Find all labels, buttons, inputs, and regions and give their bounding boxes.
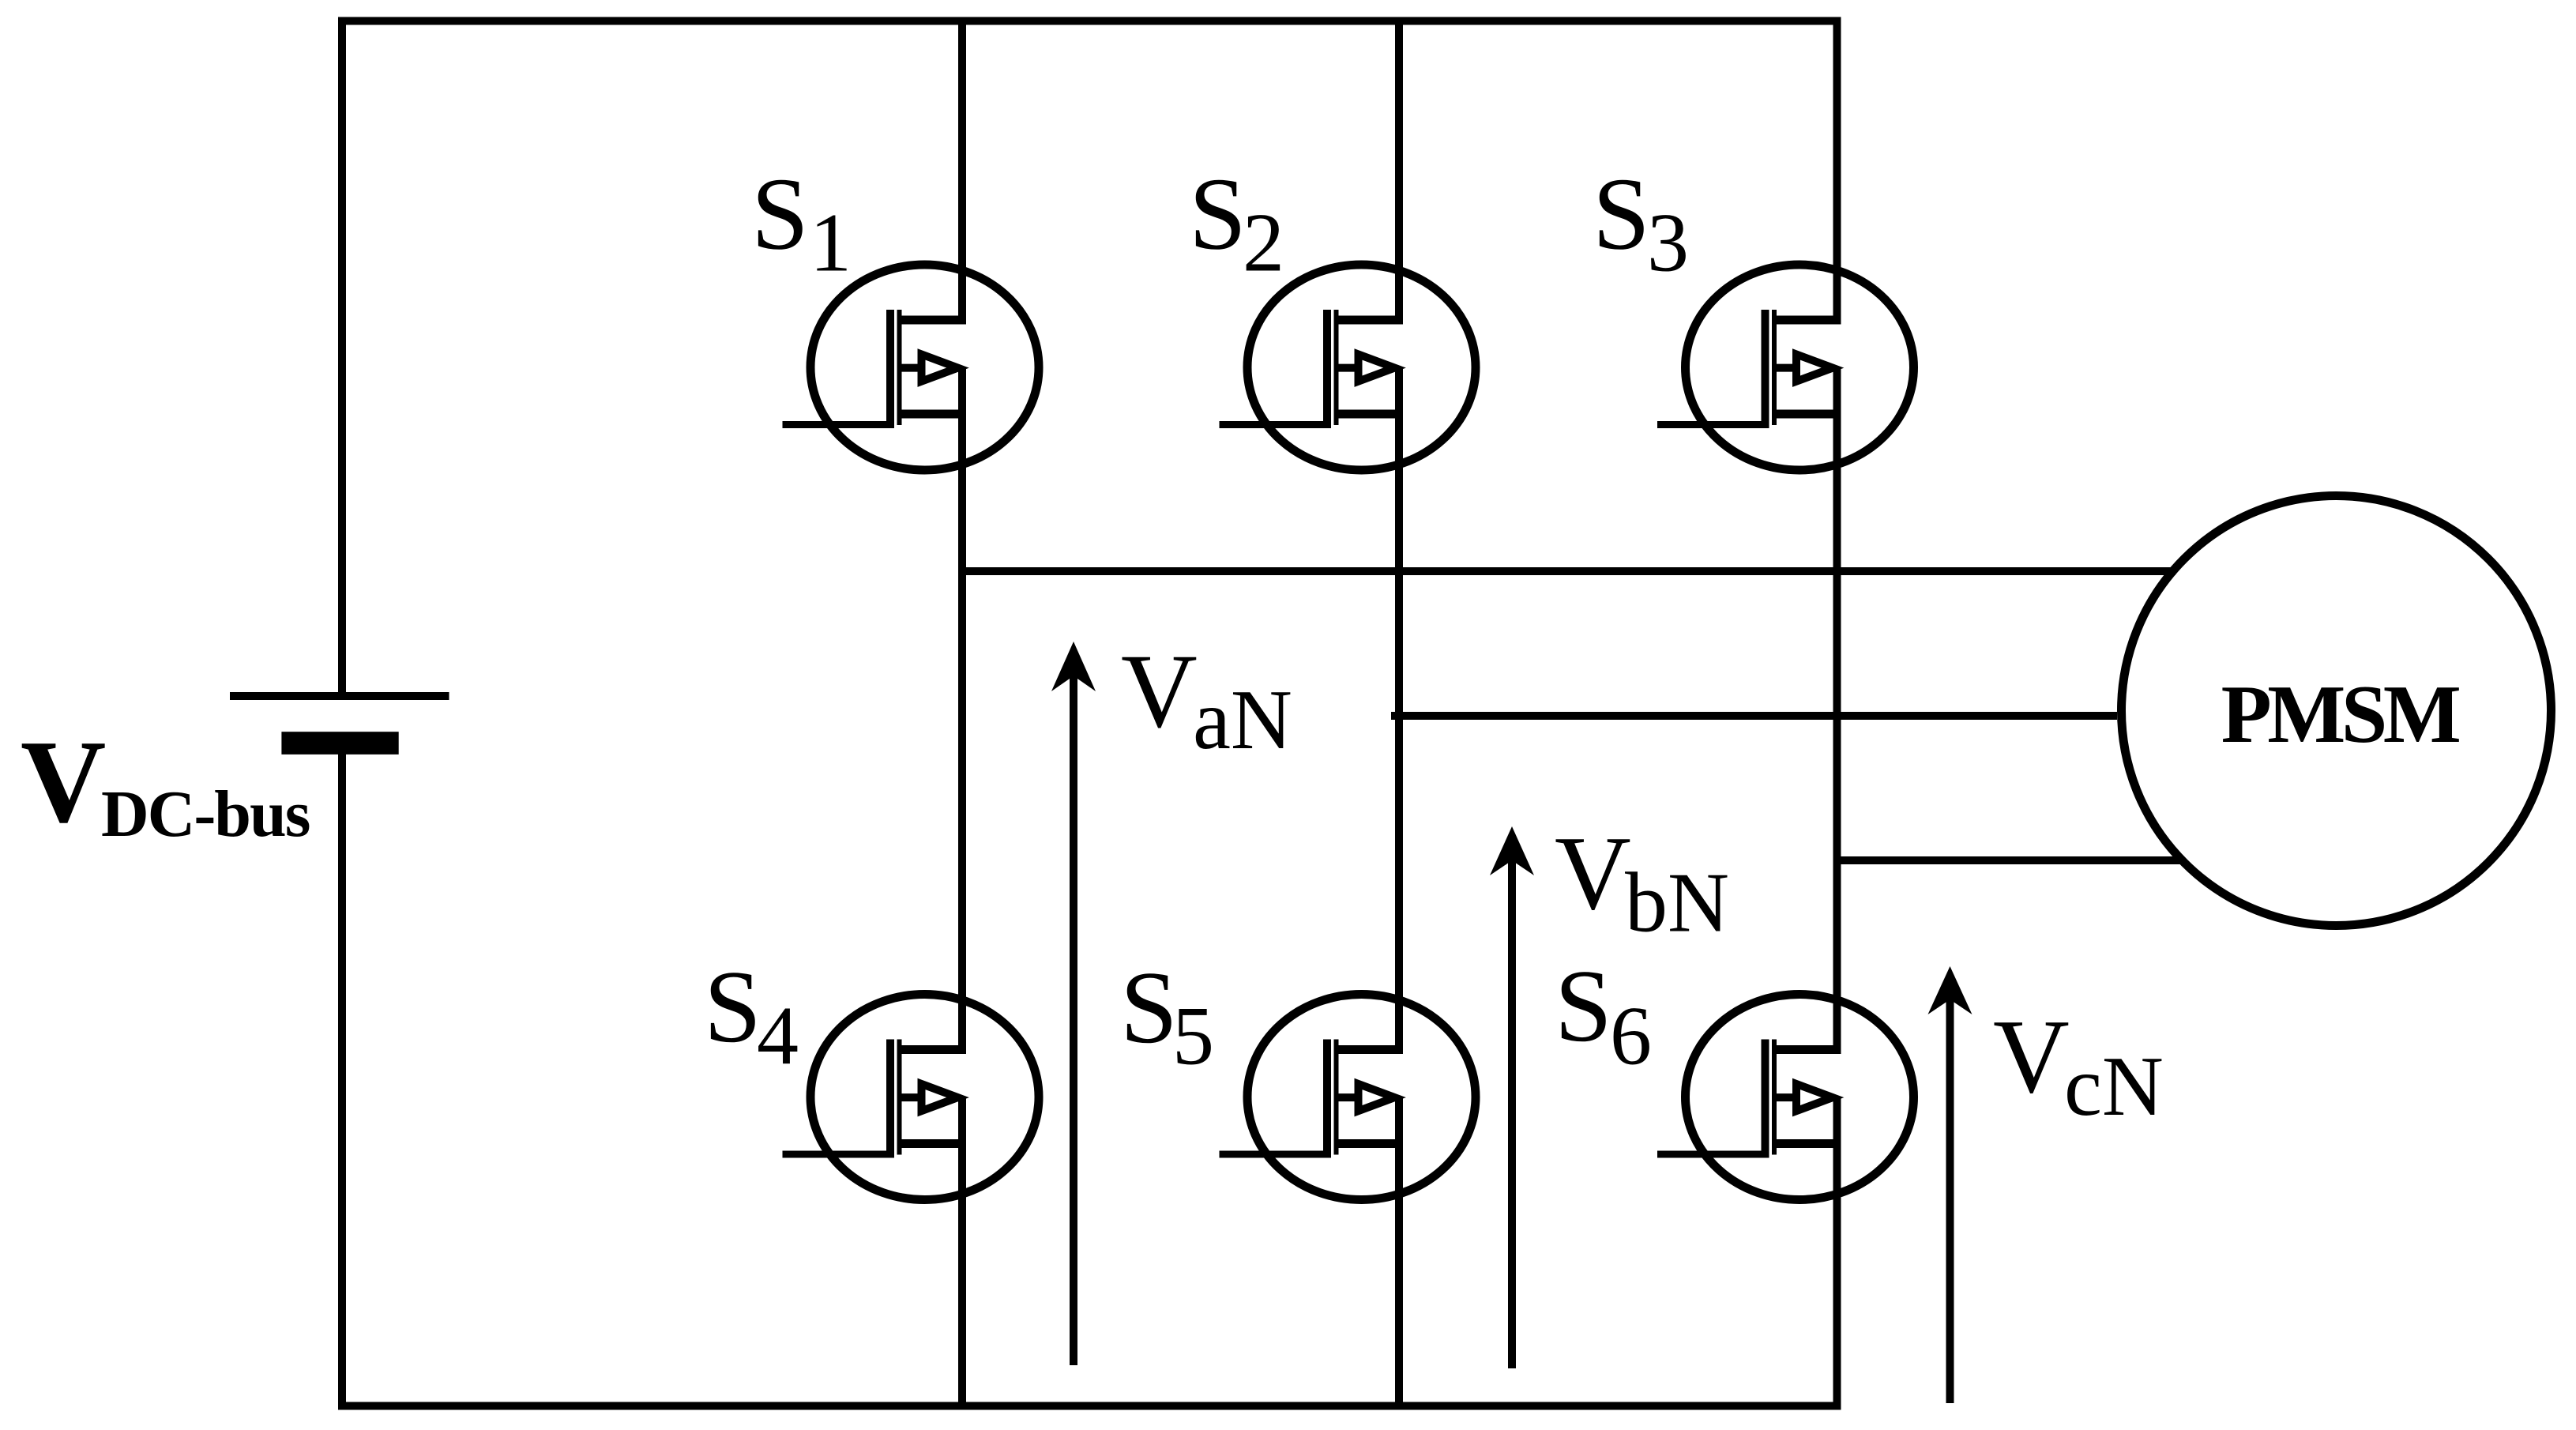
label VDC-bus (battery value) bbox=[21, 717, 310, 852]
svg-text:V: V bbox=[1121, 633, 1198, 750]
arrow VaN (phase a voltage reference) bbox=[1051, 642, 1096, 1365]
svg-text:S: S bbox=[1189, 157, 1247, 272]
battery V1 negative plate bbox=[281, 732, 398, 755]
transistor S2 bbox=[1220, 265, 1476, 470]
wire: leg c midpoint segment (S3 source to S6 drain) bbox=[1833, 368, 1841, 1050]
wire: leg a S4 source to bottom bus bbox=[958, 1097, 966, 1406]
svg-text:1: 1 bbox=[810, 197, 852, 289]
label S5 bbox=[1120, 950, 1214, 1082]
svg-text:5: 5 bbox=[1172, 990, 1214, 1082]
wire: leg a S1 drain from top bus bbox=[958, 21, 966, 321]
arrow VcN (phase c voltage reference) bbox=[1928, 966, 1972, 1403]
transistor S5 bbox=[1220, 995, 1476, 1200]
transistor S3 bbox=[1657, 265, 1914, 470]
svg-text:3: 3 bbox=[1647, 197, 1689, 289]
svg-text:S: S bbox=[1120, 950, 1178, 1065]
node b: phase b output wire to PMSM bbox=[1391, 712, 2117, 720]
svg-text:S: S bbox=[1555, 949, 1612, 1063]
svg-text:V: V bbox=[21, 717, 106, 848]
svg-text:S: S bbox=[704, 950, 762, 1064]
node c: phase c output wire to PMSM bbox=[1837, 856, 2181, 864]
svg-text:2: 2 bbox=[1243, 197, 1284, 289]
label S3 bbox=[1593, 157, 1689, 289]
wire: negative DC rail (left drop, bottom bus, S6 source rise) bbox=[342, 747, 1837, 1406]
label VbN bbox=[1555, 815, 1729, 950]
label S4 bbox=[704, 950, 799, 1082]
svg-text:S: S bbox=[1593, 157, 1650, 272]
label VaN bbox=[1121, 633, 1292, 768]
wire: leg b S2 drain from top bus bbox=[1395, 21, 1403, 321]
transistor S1 bbox=[783, 265, 1040, 470]
svg-text:S: S bbox=[751, 157, 809, 272]
transistor S6 bbox=[1657, 995, 1914, 1200]
svg-text:bN: bN bbox=[1625, 856, 1729, 950]
wire: leg a midpoint segment (S1 source to S4 drain) bbox=[958, 368, 966, 1050]
wire: leg b midpoint segment (S2 source to S5 drain) bbox=[1395, 368, 1403, 1050]
label S1 bbox=[751, 157, 852, 289]
svg-text:V: V bbox=[1993, 998, 2070, 1115]
arrow VbN (phase b voltage reference) bbox=[1490, 826, 1534, 1368]
svg-text:PMSM: PMSM bbox=[2221, 668, 2460, 760]
svg-text:aN: aN bbox=[1193, 673, 1292, 767]
svg-text:V: V bbox=[1555, 815, 1631, 931]
motor M1 body circle bbox=[2122, 496, 2552, 926]
svg-text:DC-bus: DC-bus bbox=[101, 777, 310, 851]
svg-text:cN: cN bbox=[2064, 1040, 2164, 1134]
svg-text:4: 4 bbox=[757, 990, 799, 1082]
wire: positive DC rail (left riser, top bus, S3 drain drop) bbox=[342, 21, 1837, 697]
label S6 bbox=[1555, 949, 1652, 1082]
label VcN bbox=[1993, 998, 2164, 1134]
svg-text:6: 6 bbox=[1610, 990, 1652, 1082]
label S2 bbox=[1189, 157, 1284, 289]
wire: leg b S5 source to bottom bus bbox=[1395, 1097, 1403, 1406]
node a: phase a output wire to PMSM bbox=[962, 567, 2175, 575]
battery V1 positive plate bbox=[230, 692, 449, 700]
transistor S4 bbox=[783, 995, 1040, 1200]
